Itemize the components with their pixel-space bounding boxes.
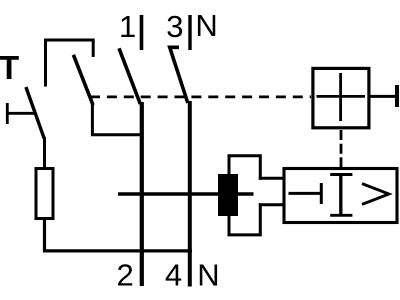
terminal lead 1 [140,15,144,50]
test button contact blade [26,87,44,139]
svg-text:N: N [195,8,217,43]
test button actuator [6,103,35,124]
svg-text:2: 2 [117,258,134,293]
relay armature T-bar [320,183,323,204]
svg-text:4: 4 [165,258,182,293]
relay core I-beam [330,175,352,216]
mechanism box (cross) [313,68,369,127]
svg-text:1: 1 [119,9,136,44]
wire: resistor down then right to N conductor [45,219,193,251]
linked trip contact blade [73,55,93,105]
svg-text:T: T [0,49,19,86]
CT secondary winding loop [229,156,285,235]
pole N conductor (to terminal 4/N) [188,101,192,287]
svg-text:N: N [197,258,219,293]
relay armature wire [289,192,322,195]
linkage mechanism-to-relay (dashed) [340,130,343,168]
mechanism linkage (dashed) [90,96,311,99]
pole N contact blade (with leading-contact tick) [170,47,188,103]
pole 1 conductor (to terminal 2) [140,102,144,286]
cross horizontal [317,95,366,98]
terminal lead 3/N [188,15,191,50]
relay threshold symbol > [362,184,389,205]
wire: bracket from test contact up and over to linked contact [46,40,94,87]
trip relay box U1 [284,169,397,223]
wire: linked contact down and right to pole 1 conductor [92,103,142,135]
CT flux axis line [118,192,254,195]
wire: test blade pivot down to resistor [43,137,46,169]
pole 1 contact blade [119,48,140,104]
resistor (test resistor) [36,169,53,219]
mechanism output terminal bar [395,85,399,107]
mechanism output lead [369,95,397,98]
cross vertical [339,73,342,121]
svg-text:3: 3 [166,9,183,44]
CT core (summation current transformer) [218,174,238,216]
